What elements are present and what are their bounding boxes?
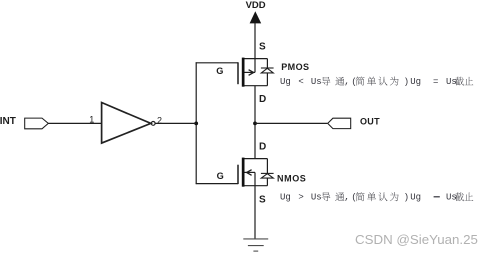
pin label D (PMOS drain) xyxy=(259,94,266,105)
wire VDD to PMOS source xyxy=(254,23,256,59)
port OUT connector xyxy=(328,118,351,128)
wire inverter output to gate bus xyxy=(155,122,196,124)
svg-text:INT: INT xyxy=(0,116,16,127)
svg-text:<: < xyxy=(298,77,303,87)
junction node on gate bus xyxy=(194,122,198,126)
port INT connector xyxy=(25,118,49,129)
label PMOS xyxy=(281,62,309,72)
svg-text:PMOS: PMOS xyxy=(281,62,309,72)
svg-text:G: G xyxy=(217,171,224,181)
inverter U1 triangle xyxy=(102,103,151,144)
annotation NMOS condition text xyxy=(280,192,473,202)
svg-text:S: S xyxy=(259,41,266,52)
svg-text:Ug: Ug xyxy=(410,77,421,87)
pin label G (NMOS gate) xyxy=(217,171,224,181)
pin label G (PMOS gate) xyxy=(216,66,223,76)
wire PMOS gate (from left bus) xyxy=(196,62,238,64)
svg-text:Us: Us xyxy=(311,193,322,203)
svg-text:1: 1 xyxy=(89,114,94,124)
NMOS body diode xyxy=(261,159,274,186)
svg-text:Us: Us xyxy=(446,193,457,203)
wire to OUT port xyxy=(255,122,327,124)
svg-text:(: ( xyxy=(351,193,356,203)
net label VDD xyxy=(246,0,266,11)
wire INT to inverter input xyxy=(48,122,101,124)
port label OUT xyxy=(360,116,380,126)
svg-text:CSDN @SieYuan.25: CSDN @SieYuan.25 xyxy=(355,232,478,247)
svg-text:G: G xyxy=(216,66,223,76)
ground symbol xyxy=(243,239,268,251)
inverter output bubble xyxy=(151,122,155,126)
svg-text:,: , xyxy=(344,77,349,87)
pin label S (NMOS source) xyxy=(259,195,266,206)
pin label S (PMOS source) xyxy=(259,41,266,52)
pin number 2 xyxy=(157,116,162,126)
svg-text:D: D xyxy=(259,141,266,152)
svg-text:Ug: Ug xyxy=(410,193,421,203)
junction node at output xyxy=(253,122,257,126)
svg-text:(: ( xyxy=(351,77,356,87)
watermark CSDN xyxy=(355,232,478,247)
svg-text:>: > xyxy=(298,193,303,203)
svg-text:NMOS: NMOS xyxy=(277,174,306,184)
PMOS body diode xyxy=(261,59,274,86)
wire PMOS drain to NMOS drain xyxy=(254,86,256,159)
transistor NMOS xyxy=(238,158,267,187)
svg-text:Ug: Ug xyxy=(280,77,291,87)
svg-text:Ug: Ug xyxy=(280,193,291,203)
label NMOS xyxy=(277,174,306,184)
svg-text:VDD: VDD xyxy=(246,0,266,11)
svg-text:=: = xyxy=(433,77,438,87)
svg-text:OUT: OUT xyxy=(360,116,380,126)
wire left gate bus xyxy=(195,62,197,184)
pin label D (NMOS drain) xyxy=(259,141,266,152)
svg-text:): ) xyxy=(404,77,409,87)
svg-text:,: , xyxy=(344,193,349,203)
svg-text:): ) xyxy=(404,193,409,203)
pin number 1 xyxy=(89,114,94,124)
svg-text:Us: Us xyxy=(311,77,322,87)
annotation PMOS condition text xyxy=(280,77,473,87)
svg-text:S: S xyxy=(259,195,266,206)
svg-text:Us: Us xyxy=(446,77,457,87)
wire NMOS source to ground xyxy=(254,186,256,239)
port label INT xyxy=(0,116,16,127)
VDD power symbol (filled up arrow) xyxy=(250,11,262,23)
svg-text:D: D xyxy=(259,94,266,105)
wire NMOS gate (from left bus) xyxy=(196,183,238,185)
transistor PMOS xyxy=(238,58,267,87)
